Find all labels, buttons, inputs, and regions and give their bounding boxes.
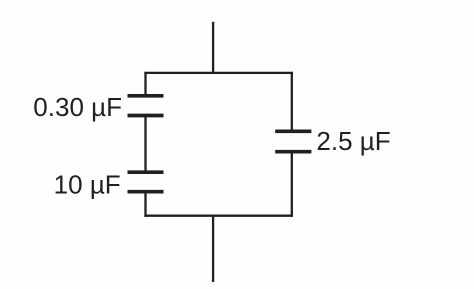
wire bottom horizontal [144, 215, 293, 217]
capacitor C1 0.30 µF top plate [128, 94, 164, 98]
wire left upper segment [144, 72, 146, 96]
capacitor C1 0.30 µF bottom plate [128, 114, 164, 118]
capacitor C3 2.5 µF top plate [275, 129, 311, 133]
wire right upper segment [291, 72, 293, 132]
svg-text:2.5 µF: 2.5 µF [316, 126, 390, 156]
wire top horizontal [144, 72, 293, 74]
capacitor C2 10 µF top plate [128, 170, 164, 174]
wire right lower segment [291, 152, 293, 217]
svg-text:0.30 µF: 0.30 µF [33, 92, 122, 122]
wire left middle segment [144, 116, 146, 173]
wire bottom lead [212, 216, 214, 282]
svg-text:10 µF: 10 µF [54, 170, 121, 200]
capacitor C3 2.5 µF bottom plate [275, 150, 311, 154]
capacitor C2 10 µF bottom plate [128, 190, 164, 194]
wire left lower segment [144, 192, 146, 217]
wire top lead [212, 22, 214, 74]
